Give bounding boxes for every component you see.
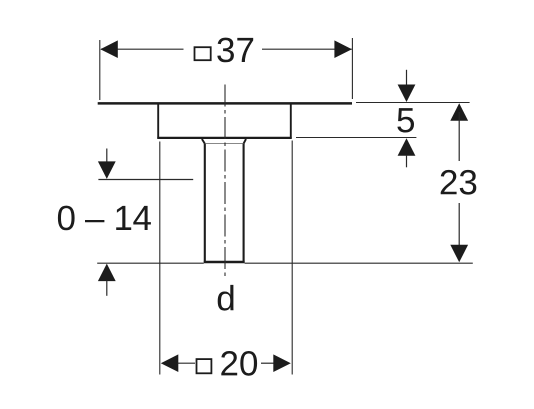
pipe bottom edge [204,261,245,263]
pipe left chamfer [202,139,205,144]
dim 37: dimension line left segment [101,48,184,50]
dim 23: value text [441,170,477,195]
dim 5: extension line at plate level [356,102,470,104]
dim 37: right extension line [351,38,353,99]
body box left edge [157,105,159,139]
dim 20: left extension line [159,142,161,375]
pipe left edge [204,144,206,263]
dim 20: left arrowhead (points left) [161,354,179,372]
dim 37: left extension line [99,40,101,100]
pipe right edge [243,144,245,263]
label d [218,285,234,311]
bottom extension line left of pipe [97,262,204,264]
dim 0-14: value text [58,206,151,231]
centerline (dash-dot) [224,85,226,278]
dim 0-14: top level line [98,179,193,181]
dim 5: extension line at box bottom level [296,137,416,139]
pipe shoulder thin line [205,143,243,145]
dim 20: value text [221,351,257,376]
pipe right chamfer [244,139,246,144]
dim 5: upper stem [406,70,408,86]
dim 5: down arrowhead [398,85,416,103]
body box bottom edge [157,137,291,139]
dim 5: lower stem [406,155,408,167]
dim 23: lower line segment [458,203,460,253]
dim 23: down arrowhead [450,245,468,262]
dim 20: left line segment [178,362,196,364]
dim 37: left arrowhead [100,40,118,58]
dim 0-14: upper stem [106,149,108,164]
dim 37: right arrowhead [334,40,352,58]
dim 37: square symbol [195,47,211,60]
dim 5: value text [397,108,414,132]
dim 20: right arrowhead (points right) [273,354,291,372]
dim 37: value text [217,38,253,63]
dim 0-14: down arrowhead [98,161,116,179]
dim 20: square symbol [197,359,212,373]
dim 37: dimension line right segment [262,48,352,50]
dim 23: up arrowhead [450,103,468,121]
dim 5: up arrowhead [398,138,416,156]
dim 0-14: up arrowhead [98,264,116,282]
dim 20: right line segment [261,362,274,364]
flange plate (top horizontal plate) [98,102,352,105]
bottom extension line right of pipe [245,262,473,264]
dim 20: right extension line [291,141,293,375]
body box right edge [290,105,292,139]
dim 0-14: lower stem [106,281,108,296]
dim 23: upper line segment [458,112,460,161]
